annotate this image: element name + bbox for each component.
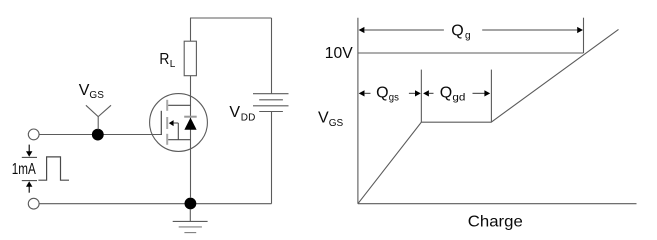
- svg-text:gs: gs: [389, 92, 399, 103]
- 10V level line: [358, 52, 584, 54]
- body circle: [150, 94, 208, 152]
- body diode cathode bar: [184, 116, 197, 118]
- tick Qgs/Qgd boundary: [420, 70, 422, 123]
- tick Qg right end: [583, 18, 585, 53]
- node ground junction: [185, 198, 197, 210]
- svg-text:Q: Q: [440, 85, 452, 102]
- terminal (top input): [28, 129, 39, 140]
- wire right rail (top): [271, 18, 273, 94]
- source connection: [168, 139, 190, 141]
- transistor M1 (N-channel MOSFET): [150, 94, 208, 152]
- svg-text:Charge: Charge: [468, 213, 523, 230]
- Qg dimension arrow left: [359, 27, 444, 33]
- svg-text:V: V: [79, 82, 90, 99]
- svg-text:V: V: [318, 110, 329, 127]
- tick Qgd right end: [490, 70, 492, 123]
- body diode: [184, 118, 196, 130]
- svg-text:g: g: [465, 31, 471, 42]
- Qgs dimension arrow left: [359, 90, 371, 96]
- svg-text:Q: Q: [376, 85, 388, 102]
- ground: [173, 209, 208, 232]
- pulse waveform: [38, 157, 69, 180]
- wire main vertical (rail to resistor): [190, 18, 192, 41]
- svg-text:L: L: [170, 59, 176, 70]
- svg-text:10V: 10V: [325, 45, 353, 62]
- wire resistor to drain / through transistor to ground: [190, 76, 192, 198]
- x-axis: [358, 203, 637, 205]
- Qg dimension arrow right: [482, 27, 583, 33]
- battery VDD: [253, 94, 289, 112]
- svg-text:GS: GS: [89, 90, 104, 101]
- channel segment (source): [166, 134, 168, 145]
- wire bottom rail: [39, 203, 271, 205]
- y-axis: [357, 18, 359, 204]
- terminal (bottom input): [28, 198, 39, 209]
- current source dimension arrow (up): [22, 181, 37, 193]
- wire gate node: [39, 134, 161, 136]
- body arrow: [169, 120, 174, 126]
- resistor RL: [184, 41, 196, 75]
- svg-text:gd: gd: [452, 92, 465, 103]
- node VGS junction: [92, 129, 104, 141]
- current source dimension arrow (down): [22, 145, 37, 158]
- channel segment (drain): [166, 100, 168, 111]
- gate bar: [160, 111, 162, 135]
- channel segment (body): [166, 117, 168, 129]
- svg-text:V: V: [229, 104, 240, 121]
- wire top rail: [190, 17, 272, 19]
- svg-text:DD: DD: [241, 113, 256, 124]
- Qgd dimension arrow right: [473, 90, 491, 96]
- Qgd dimension arrow left: [423, 90, 433, 96]
- Qgs dimension arrow right: [409, 90, 421, 96]
- gate charge curve: [358, 29, 619, 203]
- svg-text:1mA: 1mA: [12, 161, 36, 178]
- drain connection: [168, 104, 190, 106]
- svg-text:GS: GS: [329, 118, 344, 129]
- svg-text:R: R: [159, 51, 169, 68]
- wire right rail (bottom): [271, 112, 273, 204]
- svg-text:Q: Q: [451, 23, 463, 40]
- probe VGS: [86, 105, 111, 129]
